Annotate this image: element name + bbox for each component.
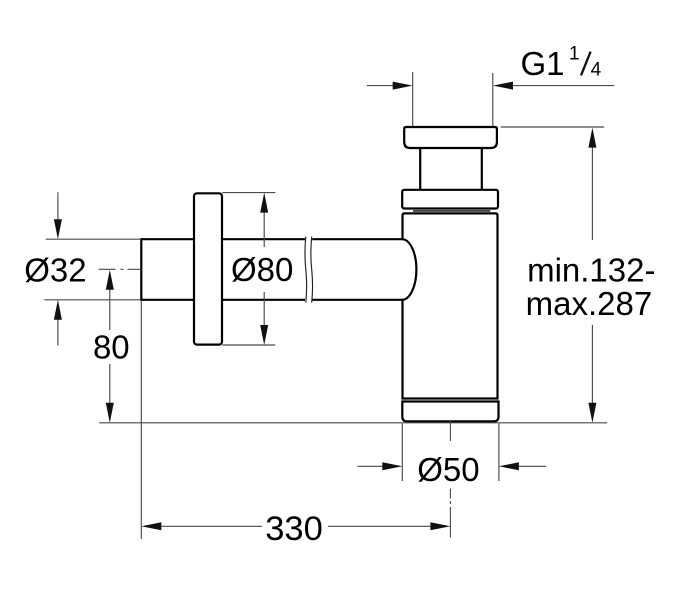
diameter 80 extension line top: [222, 192, 275, 194]
svg-text:1: 1: [569, 44, 580, 65]
330 dimension arrow right: [328, 522, 450, 530]
diameter 50 extension line left: [401, 424, 403, 482]
top nut flange: [404, 127, 497, 148]
inlet pipe top line: [140, 238, 402, 240]
pipe break squiggle right: [311, 237, 313, 303]
neck left wall: [419, 148, 421, 190]
diameter 50 extension line right: [498, 424, 500, 482]
svg-text:Ø50: Ø50: [417, 451, 479, 488]
svg-text:G1: G1: [521, 45, 565, 82]
trap body: [403, 213, 498, 398]
inlet pipe open end: [140, 239, 142, 300]
G1 1/4 dimension arrow left: [367, 82, 413, 90]
svg-text:min.132-: min.132-: [527, 251, 655, 288]
thread extension line left: [412, 72, 414, 127]
svg-text:Ø32: Ø32: [24, 251, 86, 288]
pipe break squiggle left: [305, 237, 307, 303]
330 left extension line: [140, 301, 142, 539]
diameter 80 extension line bottom: [222, 344, 275, 346]
svg-text:330: 330: [265, 510, 323, 548]
330 dimension arrow left: [141, 522, 262, 530]
bottom baseline: [99, 422, 607, 424]
dimension 80 arrow down: [106, 364, 114, 423]
seam ring: [413, 210, 490, 212]
svg-text:4: 4: [591, 59, 602, 80]
diameter 50 arrow right: [499, 462, 546, 470]
dimension 80 arrow up: [106, 270, 114, 330]
diameter 32 arrow below: [54, 300, 62, 346]
svg-text:Ø80: Ø80: [231, 251, 293, 288]
min max extension line top: [501, 126, 605, 128]
inlet pipe bottom line: [140, 299, 402, 301]
diameter 32 extension line top: [46, 238, 141, 240]
svg-text:80: 80: [93, 329, 130, 366]
label G1 1/4: [521, 44, 602, 83]
bottom centerline: [449, 420, 451, 538]
pipe end dome inside body: [402, 239, 416, 300]
diameter 32 extension line bottom: [44, 299, 141, 301]
diameter 80 dimension arrow down: [260, 292, 268, 345]
collar: [402, 190, 498, 209]
G1 1/4 dimension arrow right: [493, 82, 614, 90]
thread extension line right: [492, 73, 494, 127]
diameter 50 arrow left: [358, 462, 403, 470]
bottom cap: [402, 402, 498, 422]
wall flange: [194, 193, 222, 344]
svg-text:max.287: max.287: [526, 285, 653, 322]
min max dimension arrow down: [588, 325, 596, 423]
diameter 80 dimension arrow up: [260, 193, 268, 247]
pipe centerline leader: [99, 268, 142, 270]
diameter 32 arrow above: [54, 192, 62, 239]
neck right wall: [481, 148, 483, 190]
min max dimension arrow up: [588, 128, 596, 240]
